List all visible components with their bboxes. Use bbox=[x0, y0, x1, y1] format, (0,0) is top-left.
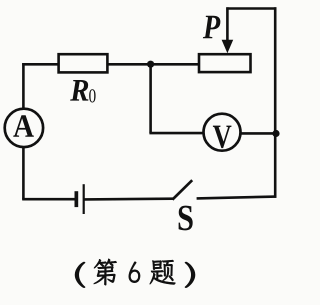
ammeter A1 circle bbox=[5, 109, 43, 147]
resistor R0 bbox=[59, 54, 108, 72]
caption digit 6 bbox=[129, 262, 140, 283]
junction node (right, voltmeter to right rail) bbox=[272, 130, 279, 137]
wire: left vertical upper (corner to ammeter top) bbox=[22, 63, 25, 108]
junction node (top, between R0 and rheostat) bbox=[147, 61, 154, 68]
wire: voltmeter branch horizontal left bbox=[149, 132, 203, 135]
caption close paren bbox=[185, 262, 195, 288]
wire: left vertical lower (ammeter bottom to bottom-left corner) bbox=[22, 148, 25, 200]
wire: top horizontal from left corner to rheostat bbox=[22, 63, 199, 66]
switch S blade bbox=[172, 180, 192, 199]
rheostat (slide resistor) box bbox=[199, 54, 251, 72]
label S bbox=[179, 206, 193, 231]
voltmeter V1 circle bbox=[204, 114, 241, 151]
label P bbox=[203, 16, 220, 39]
caption open paren bbox=[75, 262, 85, 288]
label R0 bbox=[70, 80, 88, 101]
wire: bottom right segment (switch to bottom-right corner) bbox=[197, 197, 277, 199]
wire: right vertical (top-right corner down to bottom-right corner) bbox=[274, 7, 277, 198]
battery positive plate (long thin) bbox=[83, 184, 85, 214]
caption character 题 bbox=[150, 260, 176, 284]
wire: bottom left segment (corner to battery) bbox=[22, 198, 75, 201]
wiper arrowhead bbox=[222, 40, 234, 53]
wire: wiper top horizontal bbox=[226, 7, 276, 10]
battery negative plate (short thick) bbox=[75, 191, 79, 207]
ammeter letter A bbox=[13, 115, 34, 137]
wire: voltmeter branch horizontal right bbox=[241, 132, 277, 135]
wire: bottom middle segment (battery to switch) bbox=[85, 197, 174, 200]
wire: voltmeter branch vertical from junction bbox=[149, 64, 152, 133]
wiper arrow stem bbox=[226, 7, 229, 45]
voltmeter letter V bbox=[213, 126, 232, 149]
caption character 第 bbox=[94, 259, 117, 285]
